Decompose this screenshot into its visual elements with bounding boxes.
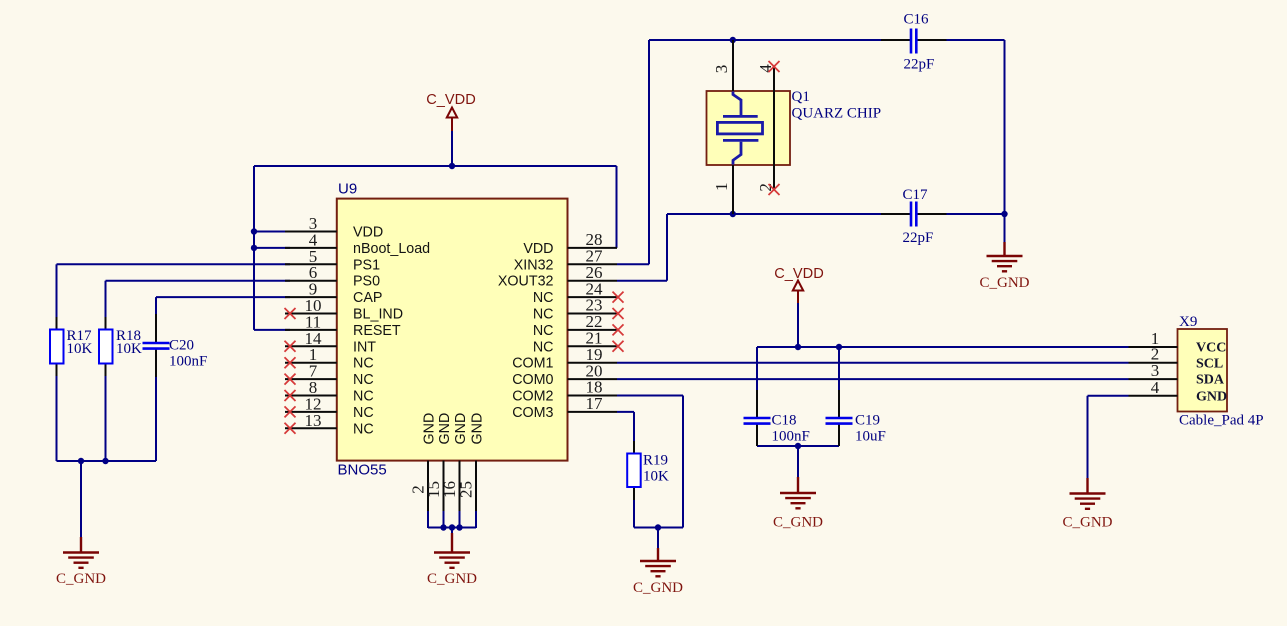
svg-text:C_GND: C_GND — [633, 580, 683, 596]
wire R17 bottom rail — [57, 364, 157, 462]
U9 pin 9 (CAP) — [285, 280, 382, 307]
wire C20 bottom — [155, 349, 157, 461]
svg-text:R19: R19 — [643, 453, 668, 469]
wire COM2 down — [617, 396, 683, 528]
connector X9 body — [1178, 329, 1228, 412]
wire U9 bottom GND bus — [428, 511, 476, 534]
value QUARZ CHIP — [792, 106, 882, 122]
svg-text:C18: C18 — [772, 413, 797, 429]
Q1 pin 2 (NC) — [756, 128, 780, 195]
C19 pins — [838, 390, 840, 446]
R18 pins — [105, 317, 107, 376]
wire COM0 to X9 pin3 (SDA) — [617, 378, 1129, 380]
wire XOUT32 to crystal bottom rail — [617, 214, 910, 281]
wire CAP pin to C20 — [156, 297, 290, 342]
svg-text:CAP: CAP — [353, 290, 382, 306]
svg-text:100nF: 100nF — [772, 429, 810, 445]
svg-text:NC: NC — [353, 389, 374, 405]
svg-text:22pF: 22pF — [903, 230, 934, 246]
U9 pin 24 (NC) — [533, 279, 624, 306]
capacitor C17 — [911, 202, 916, 227]
wire C16 to right vertical — [917, 40, 1004, 242]
resistor R18 — [99, 330, 113, 364]
X9 pin 2 (SCL) — [1129, 345, 1224, 372]
svg-text:C16: C16 — [904, 12, 930, 28]
U9 pin 5 (PS1) — [285, 247, 380, 274]
svg-text:C_GND: C_GND — [56, 571, 106, 587]
designator Q1 — [792, 89, 810, 105]
node junction C18 bottom stem — [795, 443, 801, 449]
designator R17 — [67, 328, 93, 344]
svg-text:C19: C19 — [855, 413, 880, 429]
designator U9 — [338, 181, 357, 198]
capacitor C18 — [744, 418, 771, 424]
crystal Q1 body — [707, 91, 791, 165]
svg-text:NC: NC — [533, 339, 554, 355]
value 10K (R18) — [116, 341, 142, 357]
wire VCC rail to X9 pin1 — [757, 346, 1129, 348]
capacitor C19 — [826, 418, 853, 424]
C17 pins — [881, 213, 947, 215]
designator R19 — [643, 453, 668, 469]
svg-text:GND: GND — [453, 413, 469, 445]
node junction gnd pin15 — [440, 524, 446, 530]
Q1 pin 4 (NC) — [756, 61, 780, 128]
node junction C17 right — [1001, 211, 1007, 217]
U9 pin 25 (GND) — [457, 413, 486, 511]
svg-text:C_GND: C_GND — [979, 275, 1029, 291]
node junction crystal pin3 / top rail — [730, 37, 736, 43]
svg-text:XIN32: XIN32 — [514, 257, 554, 273]
node junction C_VDD / rail — [449, 163, 455, 169]
R17 pins — [56, 317, 58, 376]
value 10uF (C19) — [855, 429, 886, 445]
ground C_GND below C18/C19 — [773, 477, 823, 531]
node junction C19 top — [836, 344, 842, 350]
svg-text:VDD: VDD — [353, 225, 383, 241]
svg-text:C_GND: C_GND — [427, 571, 477, 587]
U9 pin 13 (NC) — [285, 411, 374, 438]
svg-text:NC: NC — [533, 323, 554, 339]
svg-text:BNO55: BNO55 — [338, 462, 387, 479]
value 100nF (C20) — [169, 354, 207, 370]
svg-text:PS1: PS1 — [353, 257, 380, 273]
svg-text:GND: GND — [437, 413, 453, 445]
wire COM1 to X9 pin2 (SCL) — [617, 362, 1129, 364]
wire C_VDD mid stem — [797, 302, 799, 347]
U9 pin 11 (RESET) — [285, 312, 401, 339]
svg-text:COM1: COM1 — [512, 356, 553, 372]
value 10K (R17) — [67, 341, 93, 357]
svg-text:22pF: 22pF — [904, 57, 935, 73]
svg-text:13: 13 — [305, 411, 322, 430]
value 22pF (C17) — [903, 230, 934, 246]
Q1 pin 3 — [712, 40, 733, 91]
svg-text:Cable_Pad 4P: Cable_Pad 4P — [1179, 413, 1264, 429]
svg-text:1: 1 — [712, 182, 731, 191]
X9 pin 4 (GND) — [1129, 378, 1228, 405]
svg-text:NC: NC — [533, 307, 554, 323]
node junction C_VDD mid — [795, 344, 801, 350]
svg-text:BL_IND: BL_IND — [353, 307, 403, 323]
svg-text:VDD: VDD — [523, 241, 553, 257]
capacitor C20 — [143, 343, 170, 349]
ground C_GND left — [56, 537, 106, 587]
svg-text:C_GND: C_GND — [1062, 515, 1112, 531]
svg-text:RESET: RESET — [353, 323, 401, 339]
wire C_VDD rail above U9 — [254, 166, 617, 330]
wire VDD rail to pin 4 — [254, 247, 290, 249]
U9 pin 26 (XOUT32) — [498, 263, 617, 290]
wire VDD rail to pin 3 — [254, 231, 290, 233]
svg-text:25: 25 — [457, 481, 476, 498]
svg-text:10uF: 10uF — [855, 429, 886, 445]
C20 pins — [155, 314, 157, 377]
svg-text:C_VDD: C_VDD — [426, 92, 475, 108]
svg-text:INT: INT — [353, 339, 376, 355]
svg-text:NC: NC — [353, 356, 374, 372]
capacitor C16 — [911, 29, 916, 54]
svg-text:NC: NC — [353, 421, 374, 437]
U9 pin 18 (COM2) — [512, 378, 617, 405]
svg-text:PS0: PS0 — [353, 274, 380, 290]
C16 pins — [881, 39, 947, 41]
svg-text:4: 4 — [1151, 378, 1160, 397]
designator X9 — [1179, 314, 1197, 330]
wire PS0 to R18 — [106, 281, 291, 330]
svg-text:X9: X9 — [1179, 314, 1197, 330]
U9 pin 7 (NC) — [285, 362, 374, 389]
svg-text:3: 3 — [712, 65, 731, 74]
svg-text:C_GND: C_GND — [773, 515, 823, 531]
value Cable_Pad 4P — [1179, 413, 1264, 429]
U9 pin 4 (nBoot_Load) — [285, 230, 430, 257]
U9 pin 27 (XIN32) — [514, 247, 617, 274]
svg-text:SDA: SDA — [1196, 373, 1225, 388]
U9 pin 20 (COM0) — [512, 361, 617, 388]
svg-text:GND: GND — [470, 413, 486, 445]
value 22pF (C16) — [904, 57, 935, 73]
X9 pin 1 (VCC) — [1129, 329, 1227, 356]
U9 pin 17 (COM3) — [512, 394, 617, 421]
node junction ground stem left — [78, 458, 84, 464]
Q1 pin 1 — [712, 165, 733, 214]
crystal Q1 symbol — [717, 92, 762, 165]
wire PS1 to R17 — [57, 264, 291, 330]
svg-text:VCC: VCC — [1196, 341, 1226, 356]
wire C18 branch — [756, 347, 758, 446]
value 100nF (C18) — [772, 429, 810, 445]
U9 pin 8 (NC) — [285, 378, 374, 405]
svg-text:XOUT32: XOUT32 — [498, 274, 554, 290]
node junction R18 bottom — [102, 458, 108, 464]
svg-text:U9: U9 — [338, 181, 357, 198]
node junction R19 ground — [655, 524, 661, 530]
U9 pin 2 (GND) — [409, 413, 438, 511]
designator C20 — [169, 338, 194, 354]
resistor R17 — [50, 330, 64, 364]
svg-text:NC: NC — [353, 372, 374, 388]
svg-text:GND: GND — [1196, 389, 1227, 404]
svg-text:NC: NC — [533, 290, 554, 306]
designator C17 — [903, 187, 929, 203]
svg-text:C20: C20 — [169, 338, 194, 354]
svg-text:10K: 10K — [643, 469, 669, 485]
U9 pin 15 (GND) — [424, 413, 453, 511]
U9 pin 22 (NC) — [533, 312, 624, 339]
designator R18 — [116, 328, 141, 344]
svg-text:10K: 10K — [116, 341, 142, 357]
wire XIN32 to crystal top rail — [617, 40, 910, 264]
wire R18 bottom — [105, 364, 107, 462]
power C_VDD above U9 — [426, 92, 475, 131]
designator C19 — [855, 413, 880, 429]
wire C18/C19 bottom rail — [757, 446, 839, 477]
IC U9 BNO55 body — [337, 199, 568, 461]
power C_VDD mid — [774, 266, 823, 303]
wire R19 bottom rail — [634, 487, 683, 548]
wire C17 right plate to vertical — [917, 213, 1004, 215]
svg-text:COM3: COM3 — [512, 405, 553, 421]
svg-text:10K: 10K — [67, 341, 93, 357]
node junction gnd stem — [449, 524, 455, 530]
U9 pin 19 (COM1) — [512, 345, 617, 372]
designator C18 — [772, 413, 797, 429]
R19 pins — [633, 441, 635, 500]
node junction pin4 — [251, 245, 257, 251]
wire COM3 to R19 — [617, 412, 634, 454]
U9 pin 3 (VDD) — [285, 214, 383, 241]
U9 pin 10 (BL_IND) — [285, 296, 404, 323]
svg-text:Q1: Q1 — [792, 89, 810, 105]
wire left ground stem — [80, 461, 82, 537]
svg-text:17: 17 — [586, 394, 604, 413]
ground C_GND below X9 — [1062, 478, 1112, 531]
U9 pin 6 (PS0) — [285, 263, 380, 290]
value 10K (R19) — [643, 469, 669, 485]
ground C_GND below R19 — [633, 548, 683, 596]
U9 pin 28 (VDD) — [523, 230, 617, 257]
svg-text:GND: GND — [422, 413, 438, 445]
svg-text:COM2: COM2 — [512, 389, 553, 405]
resistor R19 — [627, 454, 641, 488]
svg-text:C_VDD: C_VDD — [774, 266, 823, 282]
wire C_VDD stem to U9 rail — [451, 130, 453, 166]
svg-text:100nF: 100nF — [169, 354, 207, 370]
U9 pin 1 (NC) — [285, 345, 374, 372]
U9 pin 21 (NC) — [533, 329, 624, 356]
wire X9 GND pin4 — [1088, 396, 1129, 478]
U9 pin 14 (INT) — [285, 329, 377, 356]
svg-text:SCL: SCL — [1196, 356, 1223, 371]
svg-text:QUARZ CHIP: QUARZ CHIP — [792, 106, 882, 122]
value BNO55 — [338, 462, 387, 479]
X9 pin 3 (SDA) — [1129, 361, 1225, 388]
U9 pin 12 (NC) — [285, 394, 374, 421]
node junction gnd pin16 — [456, 524, 462, 530]
designator C16 — [904, 12, 930, 28]
svg-text:COM0: COM0 — [512, 372, 553, 388]
svg-text:C17: C17 — [903, 187, 929, 203]
svg-text:NC: NC — [353, 405, 374, 421]
svg-text:nBoot_Load: nBoot_Load — [353, 241, 430, 257]
wire C19 branch — [838, 347, 840, 446]
U9 pin 16 (GND) — [440, 413, 469, 511]
ground C_GND crystal — [979, 242, 1029, 291]
node junction crystal pin1 / bottom rail — [730, 211, 736, 217]
ground C_GND below U9 — [427, 533, 477, 587]
node junction pin3 — [251, 228, 257, 234]
C18 pins — [756, 390, 758, 446]
U9 pin 23 (NC) — [533, 296, 624, 323]
